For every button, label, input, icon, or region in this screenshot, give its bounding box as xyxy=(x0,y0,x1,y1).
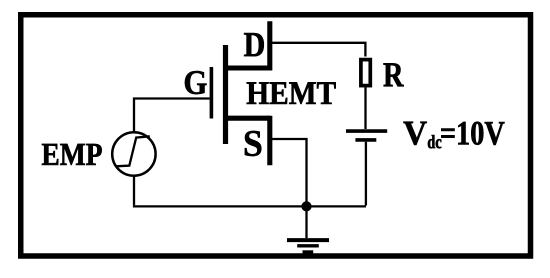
wire: resistor to battery xyxy=(364,88,366,130)
transistor U1 HEMT xyxy=(211,21,269,165)
wire: gate lead (EMP top to gate) xyxy=(134,99,210,132)
wire: bottom net xyxy=(133,205,366,207)
label HEMT xyxy=(247,82,336,104)
wire: source to junction xyxy=(272,139,307,204)
battery Vdc xyxy=(346,131,387,140)
ground xyxy=(287,206,329,252)
pin label G xyxy=(185,71,207,94)
node: source/ground junction xyxy=(302,202,312,212)
label Vdc=10V xyxy=(404,122,505,149)
resistor R xyxy=(361,60,370,86)
wire: battery to bottom net xyxy=(365,142,367,206)
pin label S xyxy=(245,131,261,156)
label EMP xyxy=(42,144,102,165)
pin label D xyxy=(244,33,264,56)
wire: drain to resistor xyxy=(272,43,365,57)
EMP source V1 xyxy=(112,132,155,175)
wire: EMP bottom lead xyxy=(133,176,135,205)
label R xyxy=(384,63,404,86)
